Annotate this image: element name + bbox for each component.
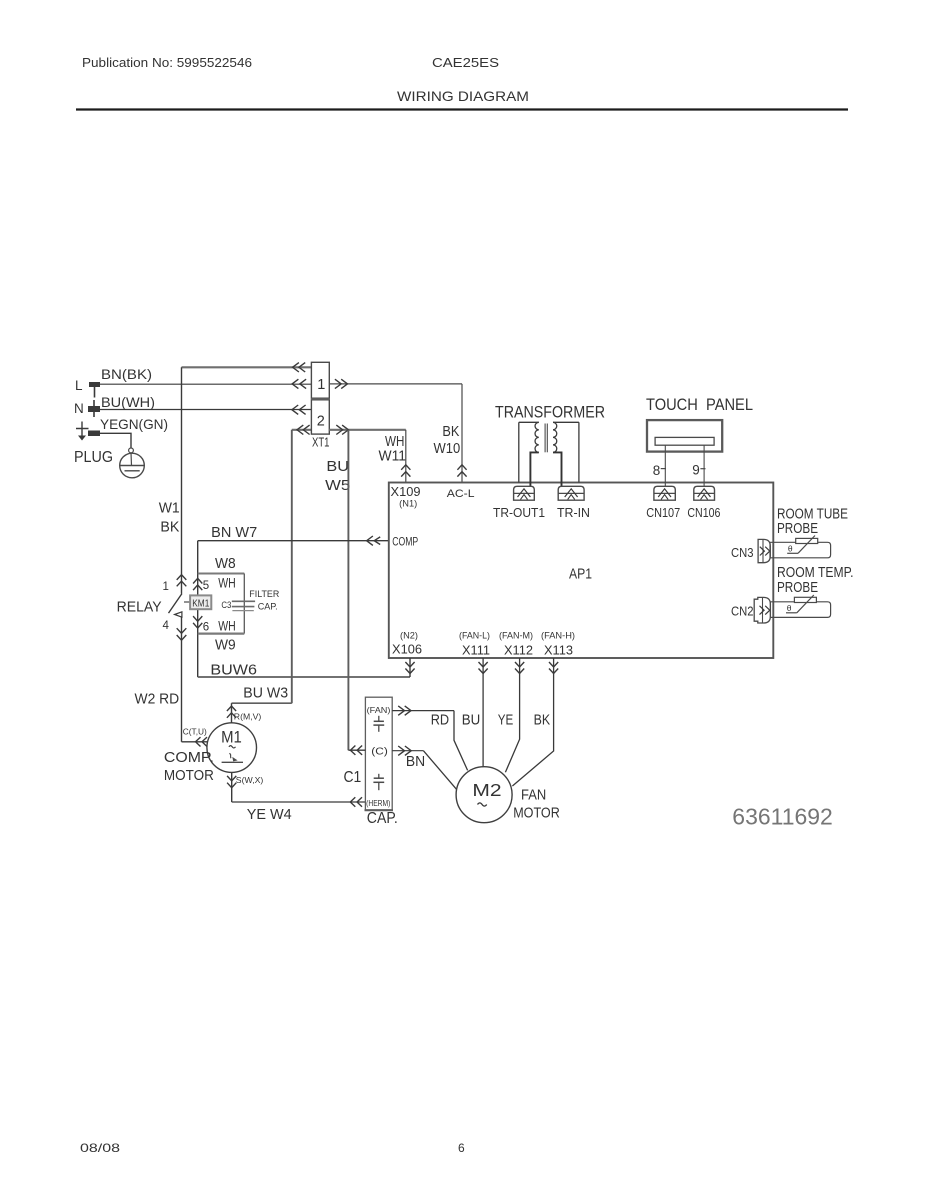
svg-text:θ: θ xyxy=(788,544,793,554)
capacitor symbol FAN xyxy=(378,716,380,721)
svg-text:(HERM): (HERM) xyxy=(366,799,391,808)
svg-text:YE W4: YE W4 xyxy=(247,807,292,823)
svg-text:PROBE: PROBE xyxy=(777,520,818,537)
arrows into XT1 top-left xyxy=(293,363,299,372)
wire RD down and to M2 xyxy=(454,711,468,771)
svg-text:W1: W1 xyxy=(159,501,180,517)
arrows up into AC-L xyxy=(457,465,466,470)
wire BU W5 into C terminal xyxy=(348,749,365,751)
arrows out of FAN xyxy=(398,706,404,715)
wire X106 pin down xyxy=(409,658,411,677)
wire X112 pin down (YE) xyxy=(505,658,519,772)
filter cap enclosure top edge xyxy=(198,573,245,575)
svg-text:CAP.: CAP. xyxy=(258,602,278,613)
svg-text:W10: W10 xyxy=(434,441,461,457)
svg-text:(FAN): (FAN) xyxy=(367,705,391,715)
capacitor C3 plates xyxy=(232,600,255,602)
svg-text:CN107: CN107 xyxy=(646,505,680,520)
wire BK W10 down to AC-L xyxy=(461,384,463,483)
transformer secondary outer wire xyxy=(518,422,520,482)
arrows down at X106 xyxy=(405,662,414,667)
svg-text:COMP: COMP xyxy=(392,537,418,549)
relay switch blade xyxy=(169,594,182,614)
svg-text:WIRING DIAGRAM: WIRING DIAGRAM xyxy=(397,88,529,104)
M1 overload protector xyxy=(222,761,243,763)
filter cap enclosure bottom edge xyxy=(198,632,245,634)
svg-text:5: 5 xyxy=(203,580,209,592)
svg-text:X109: X109 xyxy=(391,484,421,499)
svg-text:BUW6: BUW6 xyxy=(210,663,257,679)
arrows on N wire at XT1 xyxy=(292,405,298,414)
M2 tilde xyxy=(478,803,487,806)
svg-text:X113: X113 xyxy=(544,643,573,658)
svg-text:MOTOR: MOTOR xyxy=(164,768,214,784)
wire BU W3 horizontal to M1 xyxy=(232,702,292,704)
svg-text:MOTOR: MOTOR xyxy=(513,806,560,822)
connector CN106 xyxy=(694,486,715,500)
svg-text:W8: W8 xyxy=(215,556,236,572)
arrows down at X112 xyxy=(515,662,524,667)
transformer secondary bottom wire xyxy=(530,452,538,486)
arrows out of C right xyxy=(398,746,404,755)
arrows down at S terminal xyxy=(227,776,236,781)
svg-text:BU(WH): BU(WH) xyxy=(101,394,155,410)
arrows down at X111 xyxy=(479,662,488,667)
svg-text:XT1: XT1 xyxy=(312,436,330,450)
terminal block XT1 cell 1 xyxy=(311,362,329,398)
svg-text:1: 1 xyxy=(317,377,325,393)
connector CN3 xyxy=(758,539,770,562)
wire XT1 pin2 right xyxy=(329,429,406,431)
wire BN from C terminal xyxy=(392,750,423,752)
svg-text:(C): (C) xyxy=(371,747,388,758)
svg-text:FILTER: FILTER xyxy=(249,589,279,600)
svg-text:BK: BK xyxy=(160,520,179,536)
thermistor element upper xyxy=(796,538,818,543)
fan motor M2 circle xyxy=(456,767,512,823)
transformer primary top wire xyxy=(553,421,579,423)
svg-text:BN: BN xyxy=(406,754,425,770)
capacitor symbol C xyxy=(378,774,380,778)
wire BU W5 vertical xyxy=(347,430,349,750)
svg-text:R(M,V): R(M,V) xyxy=(234,712,262,722)
wire XT1 pin1 right (BK W10) xyxy=(329,383,462,385)
svg-text:YEGN(GN): YEGN(GN) xyxy=(100,416,168,432)
svg-text:9: 9 xyxy=(692,463,700,478)
svg-text:COMP.: COMP. xyxy=(164,750,214,766)
arrows on pin2 bottom-left wire xyxy=(297,425,303,434)
svg-text:BK: BK xyxy=(442,424,459,440)
svg-text:6: 6 xyxy=(458,1141,465,1155)
svg-text:M2: M2 xyxy=(472,780,501,800)
svg-text:X106: X106 xyxy=(392,642,422,657)
svg-text:(FAN-M): (FAN-M) xyxy=(499,631,533,641)
svg-text:CAP.: CAP. xyxy=(367,810,398,827)
svg-text:CN106: CN106 xyxy=(687,505,720,520)
wire pin 9 xyxy=(703,445,705,486)
arrows down at X113 xyxy=(549,662,558,667)
wire X111 pin down (BU) xyxy=(482,658,484,767)
plug pin L xyxy=(89,382,100,387)
relay blade triangle xyxy=(175,612,182,617)
relay contact 4 arrows xyxy=(177,628,187,633)
transformer primary bottom wire xyxy=(553,452,562,486)
connector CN2 xyxy=(754,597,770,623)
connector TR-IN xyxy=(558,486,584,500)
wire BN diagonal to M2 xyxy=(423,751,456,790)
svg-text:X112: X112 xyxy=(504,643,533,658)
arrows into C(T,U) xyxy=(196,737,201,746)
connector TR-OUT1 xyxy=(514,486,535,500)
transformer secondary top wire xyxy=(519,421,539,423)
svg-text:W2 RD: W2 RD xyxy=(135,692,180,708)
filter cap enclosure right edge xyxy=(243,574,245,634)
svg-text:TOUCH PANEL: TOUCH PANEL xyxy=(646,396,753,414)
svg-text:C(T,U): C(T,U) xyxy=(183,727,207,737)
mechanical link dash xyxy=(184,601,190,603)
svg-text:N: N xyxy=(74,401,84,416)
svg-text:X111: X111 xyxy=(462,643,490,658)
svg-text:TR-OUT1: TR-OUT1 xyxy=(493,506,545,520)
transformer secondary winding xyxy=(535,422,539,452)
relay contact 5 arrows xyxy=(193,578,202,583)
svg-text:BU W3: BU W3 xyxy=(243,686,288,702)
arrows out of pin2 right xyxy=(336,425,342,434)
svg-text:TRANSFORMER: TRANSFORMER xyxy=(495,404,605,422)
svg-text:8: 8 xyxy=(653,463,661,478)
svg-text:BU: BU xyxy=(462,713,481,729)
arrows up at R terminal xyxy=(227,706,236,711)
arrows out of pin1 right xyxy=(335,379,341,388)
svg-text:(N1): (N1) xyxy=(399,499,417,509)
svg-text:(FAN-L): (FAN-L) xyxy=(459,631,490,641)
svg-text:BN(BK): BN(BK) xyxy=(101,366,152,382)
svg-text:θ: θ xyxy=(787,603,792,613)
svg-text:Publication No: 5995522546: Publication No: 5995522546 xyxy=(82,56,252,70)
plug pin N xyxy=(88,406,100,412)
wire YE W4 xyxy=(232,801,366,803)
wire BU W3 vertical xyxy=(291,430,293,703)
svg-text:PROBE: PROBE xyxy=(777,579,818,596)
svg-text:C3: C3 xyxy=(221,600,231,611)
room temp probe body xyxy=(770,602,830,618)
svg-text:08/08: 08/08 xyxy=(80,1141,120,1155)
wire BN W7 horizontal xyxy=(198,540,389,542)
arrows into HERM xyxy=(350,797,355,806)
KM1 coil box xyxy=(190,595,211,609)
svg-text:W5: W5 xyxy=(325,477,350,494)
svg-text:L: L xyxy=(75,378,83,393)
arrows on COMP wire xyxy=(367,536,373,545)
connector CN107 xyxy=(654,486,675,500)
svg-text:RD: RD xyxy=(431,713,449,729)
svg-text:(FAN-H): (FAN-H) xyxy=(541,631,575,641)
svg-text:BN W7: BN W7 xyxy=(211,525,257,541)
wire L to XT1 pin1 xyxy=(100,383,311,385)
wire BUW6 horizontal xyxy=(198,676,410,678)
svg-text:M1: M1 xyxy=(221,729,242,747)
plug pin ground xyxy=(88,431,100,437)
svg-text:FAN: FAN xyxy=(521,788,546,804)
wire KM1 branch vertical xyxy=(197,541,199,677)
wire pin 8 xyxy=(664,445,666,486)
wire X113 pin down (BK) xyxy=(512,658,553,786)
svg-text:CN3: CN3 xyxy=(731,545,754,560)
M1 tilde xyxy=(229,746,236,748)
svg-text:BU: BU xyxy=(326,458,349,475)
ground symbol at plug xyxy=(76,428,89,430)
wire W2 RD to M1 xyxy=(182,741,208,743)
transformer primary outer wire xyxy=(578,422,580,482)
wire N to XT1 pin2 xyxy=(100,409,311,411)
earth terminal small circle xyxy=(129,448,134,453)
wire W2 RD vertical xyxy=(181,617,183,742)
touch panel inner bar xyxy=(655,437,714,445)
wire M1 bottom terminal xyxy=(231,772,233,802)
relay contact 6 arrows xyxy=(193,616,202,621)
capacitor C1 box xyxy=(365,697,392,810)
svg-text:YE: YE xyxy=(498,713,514,729)
svg-text:CAE25ES: CAE25ES xyxy=(432,56,499,70)
svg-text:PLUG: PLUG xyxy=(74,449,113,466)
earth circle symbol xyxy=(120,453,145,478)
wire W1 BK vertical xyxy=(181,367,183,593)
svg-text:CN2: CN2 xyxy=(731,604,754,619)
room tube probe body xyxy=(770,542,831,558)
arrows on L wire at XT1 xyxy=(292,379,298,388)
transformer primary winding xyxy=(553,422,557,452)
svg-text:1: 1 xyxy=(163,581,169,593)
wire FAN to RD xyxy=(392,710,454,712)
svg-text:WH: WH xyxy=(218,576,236,591)
wire XT1 pin2 bottom-left xyxy=(292,429,312,431)
svg-text:KM1: KM1 xyxy=(192,597,209,609)
svg-text:W11: W11 xyxy=(379,449,407,465)
relay contact 1 arrows xyxy=(177,575,187,580)
header rule xyxy=(76,108,848,110)
wire WH W11 down to X109 xyxy=(405,430,407,483)
arrows into C left xyxy=(350,746,355,755)
transformer core xyxy=(544,424,546,453)
svg-text:C1: C1 xyxy=(344,769,362,786)
touch panel outline xyxy=(647,420,722,452)
compressor motor M1 circle xyxy=(207,723,257,773)
terminal block XT1 cell 2 xyxy=(311,400,329,434)
svg-text:S(W,X): S(W,X) xyxy=(236,775,264,785)
svg-text:BK: BK xyxy=(534,713,551,729)
svg-text:6: 6 xyxy=(203,622,209,634)
arrows up into X109 xyxy=(401,465,410,470)
wire M1 top terminal xyxy=(231,703,233,723)
control board AP1 outline xyxy=(389,483,774,659)
wire W1 top to XT1 xyxy=(182,366,312,368)
svg-text:AP1: AP1 xyxy=(569,566,592,583)
svg-text:4: 4 xyxy=(163,620,170,632)
ground wire xyxy=(100,433,131,448)
svg-text:RELAY: RELAY xyxy=(117,600,162,616)
svg-text:TR-IN: TR-IN xyxy=(557,506,590,520)
svg-text:(N2): (N2) xyxy=(400,631,418,641)
svg-text:WH: WH xyxy=(218,619,236,634)
svg-text:AC-L: AC-L xyxy=(447,488,475,500)
svg-text:W9: W9 xyxy=(215,638,236,654)
svg-text:2: 2 xyxy=(317,414,325,430)
thermistor element lower xyxy=(794,597,816,602)
svg-text:63611692: 63611692 xyxy=(732,804,833,830)
